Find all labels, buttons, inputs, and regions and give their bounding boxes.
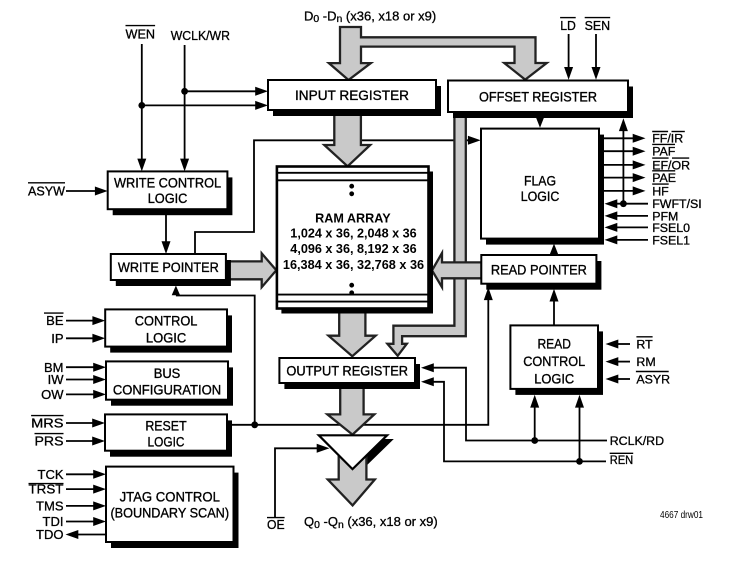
wire TCK in (66, 470, 106, 479)
wire OFFSET REGISTER to FLAG LOGIC (536, 116, 545, 128)
wire RESET branch to WRITE POINTER (172, 286, 255, 425)
wire RCLK/RD (421, 363, 607, 440)
block OFFSET REGISTER (448, 81, 633, 119)
block INPUT REGISTER (268, 80, 441, 116)
label REN (610, 453, 634, 467)
wire flag PAE out (603, 173, 646, 182)
svg-text:RAM ARRAY: RAM ARRAY (315, 211, 391, 225)
wire RESET LOGIC to READ POINTER (227, 287, 493, 425)
label ASYR (636, 372, 670, 387)
svg-text:OFFSET REGISTER: OFFSET REGISTER (479, 88, 597, 104)
junction RESET branch (251, 421, 258, 428)
svg-text:RCLK/RD: RCLK/RD (610, 434, 664, 448)
label PAF (652, 144, 676, 158)
svg-text:IW: IW (48, 372, 65, 387)
block RESET LOGIC (105, 414, 232, 456)
svg-text:CONFIGURATION: CONFIGURATION (113, 382, 221, 398)
wire flag EF/OR out (603, 160, 646, 169)
label BE (44, 313, 64, 328)
gray arrow output buffer to Q0-Qn (328, 450, 375, 505)
block RAM ARRAY (277, 167, 433, 314)
gray arrow D0-Dn tee into INPUT REGISTER and OFFSET REGISTER (329, 27, 547, 80)
wire RT in (606, 340, 631, 349)
wire IW in (66, 375, 106, 384)
label 4667 drw01 (660, 510, 703, 521)
label IP (51, 331, 63, 346)
svg-text:LOGIC: LOGIC (521, 188, 560, 204)
label FSEL1 (652, 233, 690, 247)
gray arrow OUTPUT REGISTER to output buffer (327, 386, 374, 435)
block WRITE CONTROL LOGIC (108, 171, 233, 215)
svg-text:RESET: RESET (145, 418, 187, 434)
wire MRS in (66, 419, 105, 428)
label EF/OR (652, 158, 690, 172)
wire TDO out (66, 530, 107, 539)
svg-text:MRS: MRS (31, 416, 64, 431)
label TDO (36, 527, 63, 542)
svg-text:FSEL1: FSEL1 (652, 233, 690, 247)
wire TDI in (66, 517, 106, 526)
svg-text:WRITE CONTROL: WRITE CONTROL (114, 174, 221, 190)
junction WCLK (181, 88, 188, 95)
wire flag FWFT/SI in (605, 199, 649, 208)
svg-text:OE: OE (267, 517, 285, 532)
svg-text:WEN: WEN (126, 26, 156, 41)
svg-text:D0 -Dn (x36, x18 or x9): D0 -Dn (x36, x18 or x9) (304, 8, 436, 25)
wire WRITE POINTER to FLAG LOGIC (195, 136, 481, 254)
svg-text:LOGIC: LOGIC (148, 434, 185, 450)
label WEN (126, 26, 156, 42)
svg-text:SEN: SEN (585, 18, 611, 33)
svg-text:JTAG CONTROL: JTAG CONTROL (120, 488, 221, 504)
svg-text:BUS: BUS (154, 365, 181, 381)
label ASYW (28, 183, 66, 199)
wire BE in (66, 316, 105, 325)
svg-text:BE: BE (46, 313, 64, 328)
svg-text:PAE: PAE (652, 171, 676, 185)
svg-text:WCLK/WR: WCLK/WR (171, 28, 230, 43)
svg-text:ASYR: ASYR (636, 373, 670, 387)
label MRS (31, 416, 64, 431)
wire flag FSEL0 in (605, 223, 649, 232)
svg-text:FF/IR: FF/IR (652, 132, 683, 146)
wire WEN to INPUT REGISTER (142, 101, 268, 110)
svg-text:RT: RT (636, 338, 653, 352)
label PAE (652, 171, 676, 185)
svg-text:4667 drw01: 4667 drw01 (660, 510, 703, 521)
junction REN (576, 458, 583, 465)
label TRST (29, 482, 64, 497)
label RT (636, 337, 653, 352)
block READ CONTROL LOGIC (510, 325, 603, 395)
svg-text:LD: LD (560, 18, 576, 33)
wire flag HF out (603, 186, 646, 195)
svg-text:TMS: TMS (36, 499, 64, 514)
wire OW in (66, 390, 106, 399)
svg-text:WRITE POINTER: WRITE POINTER (118, 259, 219, 275)
svg-text:INPUT REGISTER: INPUT REGISTER (295, 87, 409, 103)
svg-text:PRS: PRS (35, 434, 64, 449)
svg-text:CONTROL: CONTROL (135, 313, 198, 329)
wire WCLK to INPUT REGISTER (185, 87, 268, 96)
gray arrow WRITE POINTER to RAM ARRAY (227, 253, 276, 287)
svg-text:TDO: TDO (36, 527, 63, 542)
junction WEN (138, 102, 145, 109)
label PFM (652, 209, 678, 223)
label SEN (585, 18, 611, 33)
svg-text:CONTROL: CONTROL (523, 353, 585, 369)
label WCLK/WR (171, 28, 230, 43)
wire OE to output buffer (275, 444, 330, 518)
block WRITE POINTER (111, 254, 231, 286)
wire IP in (66, 334, 105, 343)
wire TMS in (66, 501, 106, 510)
label Q0-Qn bus (304, 514, 438, 531)
svg-text:LOGIC: LOGIC (148, 190, 188, 206)
svg-text:16,384 x 36, 32,768 x 36: 16,384 x 36, 32,768 x 36 (283, 258, 424, 272)
label D0-Dn bus (304, 8, 436, 25)
label LD (560, 18, 576, 33)
svg-text:1,024 x 36, 2,048 x 36: 1,024 x 36, 2,048 x 36 (290, 227, 416, 241)
block CONTROL LOGIC (105, 309, 232, 352)
wire BM in (66, 363, 106, 372)
svg-text:Q0 -Qn (x36, x18 or x9): Q0 -Qn (x36, x18 or x9) (304, 514, 438, 531)
svg-text:READ POINTER: READ POINTER (491, 261, 587, 277)
block BUS CONFIGURATION (106, 361, 233, 405)
label TMS (36, 499, 64, 514)
gray arrow READ POINTER to RAM ARRAY (432, 253, 482, 287)
wire PRS in (66, 437, 105, 446)
svg-text:TCK: TCK (38, 467, 64, 482)
wire flag PAF out (603, 147, 646, 156)
svg-text:RM: RM (636, 355, 655, 369)
svg-text:(BOUNDARY SCAN): (BOUNDARY SCAN) (110, 504, 229, 520)
label RM (636, 355, 655, 369)
svg-text:OUTPUT REGISTER: OUTPUT REGISTER (286, 363, 408, 379)
block OUTPUT REGISTER (279, 358, 420, 389)
svg-text:FLAG: FLAG (524, 172, 556, 188)
block READ POINTER (481, 255, 601, 290)
wire flag FSEL1 in (605, 235, 649, 244)
svg-text:4,096 x 36, 8,192 x 36: 4,096 x 36, 8,192 x 36 (290, 242, 416, 256)
block JTAG CONTROL (BOUNDARY SCAN) (106, 467, 239, 548)
wire FWFT to OFFSET REGISTER (619, 118, 628, 203)
svg-text:LOGIC: LOGIC (534, 371, 574, 387)
label PRS (35, 434, 64, 449)
svg-text:PAF: PAF (652, 145, 676, 159)
label FF/IR (652, 132, 685, 146)
label RCLK/RD (610, 434, 664, 448)
svg-text:LOGIC: LOGIC (146, 330, 186, 346)
gray elbow OFFSET REGISTER to OUTPUT REGISTER (387, 114, 465, 356)
gray arrow INPUT REGISTER to RAM ARRAY (324, 111, 370, 166)
label BM (44, 360, 64, 375)
gray arrow RAM ARRAY to OUTPUT REGISTER (329, 310, 376, 356)
wire LD arrow (564, 34, 573, 80)
output buffer tri-state triangle (319, 435, 387, 469)
wire ASYW arrow (66, 187, 108, 196)
junction FWFT (620, 200, 627, 207)
wire flag FF/IR out (603, 134, 646, 143)
label FSEL0 (652, 221, 690, 235)
wire READ CONTROL LOGIC to READ POINTER (550, 289, 559, 326)
output buffer triangle shadow (325, 439, 394, 473)
block FLAG LOGIC (481, 129, 604, 245)
wire WEN vertical (137, 44, 146, 171)
label OW (41, 387, 64, 402)
wire READ POINTER to FLAG LOGIC (550, 244, 559, 256)
svg-text:OW: OW (41, 387, 64, 402)
wire RCLK to READ CONTROL LOGIC (530, 395, 539, 441)
label TCK (38, 467, 64, 482)
label IW (48, 372, 65, 387)
label TDI (43, 514, 64, 529)
wire REN (421, 377, 606, 461)
svg-text:IP: IP (51, 331, 63, 346)
svg-text:ASYW: ASYW (28, 183, 66, 198)
wire WRITE CONTROL to WRITE POINTER (162, 211, 171, 254)
svg-text:READ: READ (537, 336, 571, 352)
svg-text:REN: REN (610, 453, 634, 467)
wire SEN arrow (592, 34, 601, 80)
wire WCLK/WR vertical (180, 45, 189, 171)
label HF (652, 184, 669, 198)
label OE (267, 517, 285, 532)
wire REN to READ CONTROL LOGIC (575, 395, 584, 462)
wire RM in (606, 357, 631, 366)
junction RCLK (531, 437, 538, 444)
label FWFT/SI (652, 197, 702, 211)
wire TRST in (66, 485, 106, 494)
wire ASYR in (606, 375, 631, 384)
wire flag PFM in (605, 211, 649, 220)
